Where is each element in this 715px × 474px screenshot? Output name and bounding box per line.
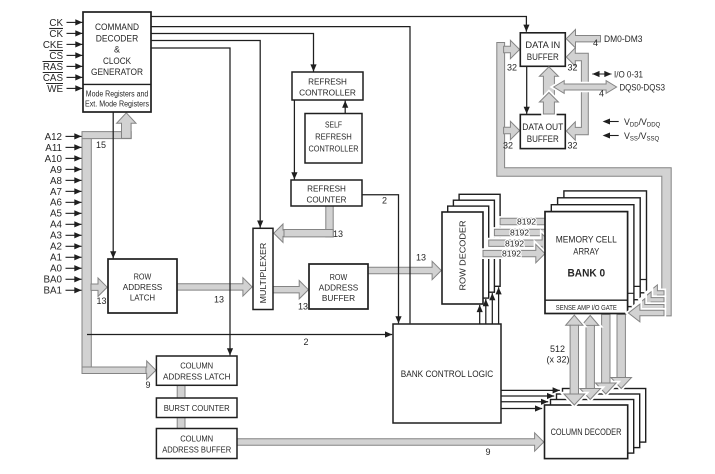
bus: SENSE AMP bank0 to COLUMN DECODER bank0 (512 x32 double arrow)	[564, 393, 585, 405]
svg-text:MULTIPLEXER: MULTIPLEXER	[258, 243, 268, 304]
svg-text:CONTROLLER: CONTROLLER	[309, 145, 359, 154]
svg-text:CS: CS	[49, 51, 63, 62]
svg-text:ADDRESS LATCH: ADDRESS LATCH	[163, 372, 231, 382]
svg-text:32: 32	[567, 63, 577, 73]
svg-text:REFRESH: REFRESH	[308, 77, 347, 87]
svg-text:A11: A11	[45, 143, 62, 154]
svg-text:A4: A4	[50, 220, 63, 231]
bus: COLUMN ADDRESS BUFFER to COLUMN DECODER (9)	[236, 433, 544, 451]
wire: BANK CONTROL LOGIC to COLUMN DECODER bank2	[501, 395, 554, 397]
bus: DATA OUT BUFFER to DATA IN BUFFER lower segment (read data)	[539, 93, 558, 115]
svg-text:COMMAND: COMMAND	[95, 22, 139, 32]
svg-text:CAS: CAS	[43, 73, 64, 84]
svg-text:BUFFER: BUFFER	[322, 293, 355, 303]
svg-text:8192: 8192	[505, 238, 524, 248]
wire: BANK CONTROL LOGIC to COLUMN DECODER bank3	[501, 389, 560, 391]
block: ROW DECODER bank0	[442, 212, 483, 304]
svg-text:COLUMN: COLUMN	[180, 434, 213, 444]
svg-text:15: 15	[96, 140, 106, 150]
bus: SENSE AMP bank1 to COLUMN DECODER bank1 (512 x32 double arrow)	[580, 388, 601, 400]
block: MEMORY CELL ARRAY bank3 (stack echo)	[564, 191, 647, 293]
svg-text:A3: A3	[50, 231, 63, 242]
block: COLUMN DECODER bank0	[545, 405, 628, 459]
svg-text:13: 13	[298, 302, 308, 312]
svg-text:RAS: RAS	[43, 62, 64, 73]
wire: DATA IN BUFFER to DATA OUT BUFFER	[526, 66, 528, 114]
svg-text:32: 32	[567, 141, 577, 151]
bus: COLUMN ADDRESS LATCH to BURST COUNTER	[177, 385, 185, 398]
svg-text:I/O 0-31: I/O 0-31	[614, 68, 643, 79]
svg-text:A1: A1	[50, 253, 62, 264]
block: ROW ADDRESS BUFFER	[309, 264, 368, 309]
svg-text:Mode Registers and: Mode Registers and	[86, 90, 149, 99]
svg-text:8192: 8192	[510, 228, 529, 238]
svg-text:DDQ: DDQ	[647, 122, 661, 128]
svg-text:A2: A2	[50, 242, 62, 253]
svg-text:BUFFER: BUFFER	[527, 52, 559, 62]
bus: SENSE AMP bank2 to COLUMN DECODER bank2 (512 x32 double arrow)	[596, 382, 617, 394]
block: COLUMN ADDRESS BUFFER	[156, 429, 237, 459]
block: MULTIPLEXER	[253, 228, 273, 309]
svg-text:/V: /V	[638, 131, 646, 141]
svg-text:9: 9	[145, 380, 150, 390]
bus: DM0-DM3 input to DATA IN BUFFER (4)	[566, 30, 600, 48]
svg-text:13: 13	[96, 296, 106, 306]
bus: loop arm into SENSE AMP bank1	[635, 299, 664, 315]
svg-text:&: &	[114, 45, 120, 55]
bus: address input bus A12-BA1 (vertical, left)	[82, 132, 91, 373]
svg-text:SENSE AMP I/O GATE: SENSE AMP I/O GATE	[556, 303, 617, 312]
svg-text:SS: SS	[630, 136, 638, 142]
svg-text:32: 32	[503, 141, 513, 151]
svg-text:32: 32	[507, 63, 517, 73]
wire: command decoder to REFRESH CONTROLLER (L3)	[151, 34, 314, 72]
block: COLUMN ADDRESS LATCH	[156, 356, 237, 385]
svg-text:CLOCK: CLOCK	[103, 56, 131, 66]
svg-text:8192: 8192	[502, 249, 521, 259]
svg-text:WE: WE	[47, 84, 63, 95]
svg-text:ROW DECODER: ROW DECODER	[458, 221, 468, 291]
svg-text:512: 512	[550, 344, 565, 354]
svg-text:COLUMN DECODER: COLUMN DECODER	[551, 426, 622, 437]
svg-text:DATA IN: DATA IN	[525, 40, 560, 50]
block: ROW ADDRESS LATCH	[108, 259, 177, 313]
wire: command decoder to BANK CONTROL LOGIC (L2)	[151, 27, 410, 324]
svg-text:4: 4	[593, 38, 598, 48]
bus: address bus arm into COLUMN ADDRESS LATCH (9)	[82, 367, 147, 374]
wire: BANK CONTROL LOGIC to COLUMN DECODER bank1	[501, 401, 548, 403]
bus: MULTIPLEXER to ROW ADDRESS BUFFER	[272, 281, 308, 299]
svg-text:SSQ: SSQ	[647, 136, 660, 142]
block: REFRESH COUNTER	[291, 180, 362, 206]
svg-text:CK: CK	[49, 18, 63, 29]
wire: VSS/VSSQ ground input	[606, 135, 619, 137]
wire: REFRESH CONTROLLER to REFRESH COUNTER	[293, 100, 295, 179]
svg-text:COLUMN: COLUMN	[180, 361, 213, 371]
svg-text:ARRAY: ARRAY	[573, 246, 600, 257]
svg-text:MEMORY CELL: MEMORY CELL	[556, 234, 617, 245]
bus: ROW DECODER bank0 to MEMORY CELL ARRAY bank0 (8192)	[483, 244, 545, 262]
svg-text:2: 2	[382, 196, 387, 206]
block: ROW DECODER bank3 (stack echo)	[459, 194, 500, 286]
block: COLUMN DECODER bank2 (stack echo)	[557, 394, 640, 448]
wire: BANK CONTROL LOGIC to ROW DECODER bank0	[479, 305, 481, 324]
svg-text:DM0-DM3: DM0-DM3	[604, 33, 643, 44]
block: REFRESH CONTROLLER	[292, 72, 363, 100]
block: DATA OUT BUFFER	[520, 115, 565, 149]
svg-text:A10: A10	[45, 154, 63, 165]
svg-text:13: 13	[214, 295, 224, 305]
block: MEMORY CELL ARRAY bank2 (stack echo)	[558, 198, 641, 300]
svg-text:DQS0-DQS3: DQS0-DQS3	[620, 82, 666, 93]
svg-text:GENERATOR: GENERATOR	[91, 67, 143, 77]
svg-text:A6: A6	[50, 198, 63, 209]
svg-text:ADDRESS: ADDRESS	[319, 283, 359, 293]
wire: BANK CONTROL LOGIC to ROW DECODER bank2	[491, 293, 493, 324]
svg-text:BUFFER: BUFFER	[527, 134, 559, 144]
block: DATA IN BUFFER	[520, 33, 565, 67]
bus: DATA OUT BUFFER to DATA IN BUFFER upper segment (read data)	[539, 67, 558, 104]
svg-text:9: 9	[485, 447, 490, 457]
wire: bank address (2) to BANK CONTROL LOGIC	[87, 334, 392, 336]
svg-text:CKE: CKE	[43, 40, 64, 51]
block: SELF REFRESH CONTROLLER	[305, 114, 362, 164]
wire: command decoder to MULTIPLEXER (L4)	[151, 41, 260, 228]
svg-text:A12: A12	[45, 132, 62, 143]
svg-text:8192: 8192	[517, 217, 536, 227]
svg-text:2: 2	[303, 337, 308, 347]
wire: command decoder to DATA IN BUFFER (L1)	[151, 17, 526, 32]
svg-text:13: 13	[333, 229, 343, 239]
bus: DQ bracket bus right of data buffers (32)	[566, 48, 588, 140]
svg-text:REFRESH: REFRESH	[315, 133, 352, 142]
bus: loop arm into DATA OUT BUFFER (32)	[504, 121, 520, 139]
svg-text:BA0: BA0	[43, 275, 62, 286]
wire: BANK CONTROL LOGIC to ROW DECODER bank3	[498, 287, 500, 324]
svg-text:Ext. Mode Registers: Ext. Mode Registers	[85, 100, 149, 109]
block: COLUMN DECODER bank3 (stack echo)	[563, 389, 646, 443]
bus: ROW ADDRESS BUFFER to ROW DECODER (13)	[367, 261, 441, 279]
svg-text:13: 13	[416, 253, 426, 263]
svg-text:BURST COUNTER: BURST COUNTER	[164, 403, 230, 413]
bus: BURST COUNTER to COLUMN ADDRESS BUFFER	[177, 418, 185, 429]
bus: loop arm into SENSE AMP bank2	[641, 292, 664, 308]
bus: loop arm into SENSE AMP bank0	[628, 304, 664, 322]
block: BURST COUNTER	[156, 398, 237, 418]
bus: loop arm into DATA IN BUFFER (32)	[504, 40, 520, 58]
wire: VDD/VDDQ power input	[606, 121, 619, 123]
svg-text:CK: CK	[49, 29, 63, 40]
bus: ROW ADDRESS LATCH to MULTIPLEXER (13)	[176, 278, 252, 296]
wire: REFRESH COUNTER to BANK CONTROL LOGIC (2)	[362, 195, 399, 324]
wire: BANK CONTROL LOGIC to COLUMN DECODER bank0	[501, 408, 542, 410]
svg-text:BA1: BA1	[43, 286, 62, 297]
bus: ROW DECODER bank3 to MEMORY CELL ARRAY bank3 (8192)	[500, 212, 564, 230]
svg-text:LATCH: LATCH	[130, 293, 155, 303]
svg-text:ROW: ROW	[134, 272, 152, 282]
wire: mode registers to ROW ADDRESS LATCH	[112, 113, 114, 259]
svg-text:A8: A8	[50, 176, 63, 187]
svg-text:ADDRESS: ADDRESS	[123, 282, 163, 292]
svg-text:BANK 0: BANK 0	[568, 268, 606, 280]
bus: SENSE AMP bank3 to COLUMN DECODER bank3 (512 x32 double arrow)	[611, 377, 632, 389]
block: COMMAND DECODER & CLOCK GENERATOR	[83, 12, 151, 112]
block: MEMORY CELL ARRAY BANK 0	[545, 212, 628, 314]
svg-text:(x 32): (x 32)	[546, 355, 569, 365]
bus: address bus arm into mode registers (15)	[82, 132, 131, 139]
svg-text:ROW: ROW	[330, 272, 348, 282]
bus: address bus arm into ROW ADDRESS LATCH (13)	[91, 278, 107, 296]
svg-text:A9: A9	[50, 165, 62, 176]
wire: BANK CONTROL LOGIC to ROW DECODER bank1	[485, 299, 487, 324]
bus: data path loop (DATA buffers to sense amps, 32)	[497, 43, 671, 316]
svg-text:REFRESH: REFRESH	[307, 184, 346, 194]
wire: SELF REFRESH CONTROLLER to REFRESH CONTROLLER	[344, 101, 346, 114]
svg-text:SELF: SELF	[325, 121, 342, 130]
bus: ROW DECODER bank1 to MEMORY CELL ARRAY bank1 (8192)	[489, 234, 552, 252]
block: BANK CONTROL LOGIC	[393, 324, 501, 423]
svg-text:4: 4	[599, 89, 604, 99]
svg-text:COUNTER: COUNTER	[307, 195, 347, 205]
svg-text:A7: A7	[50, 187, 62, 198]
bus: DQS0-DQS3 bidirectional (4)	[554, 81, 617, 94]
svg-text:BANK CONTROL LOGIC: BANK CONTROL LOGIC	[401, 368, 494, 379]
svg-text:A0: A0	[50, 264, 63, 275]
block: COLUMN DECODER bank1 (stack echo)	[551, 400, 634, 454]
wire: command decoder to COLUMN ADDRESS LATCH (L5)	[151, 48, 230, 355]
bus: REFRESH COUNTER to MULTIPLEXER (13)	[326, 206, 333, 237]
svg-text:CONTROLLER: CONTROLLER	[299, 88, 356, 98]
svg-text:DATA OUT: DATA OUT	[522, 122, 564, 132]
svg-text:DECODER: DECODER	[96, 33, 139, 43]
block: MEMORY CELL ARRAY bank1 (stack echo)	[551, 205, 634, 307]
bus: loop arm into SENSE AMP bank3	[647, 285, 664, 301]
svg-text:/V: /V	[639, 117, 647, 127]
svg-text:ADDRESS BUFFER: ADDRESS BUFFER	[162, 445, 231, 455]
block: ROW DECODER bank1 (stack echo)	[448, 206, 489, 298]
block: ROW DECODER bank2 (stack echo)	[453, 200, 494, 292]
wire: I/O 0-31 bidirectional	[592, 73, 611, 75]
bus: ROW DECODER bank2 to MEMORY CELL ARRAY bank2 (8192)	[494, 223, 557, 241]
svg-text:A5: A5	[50, 209, 63, 220]
